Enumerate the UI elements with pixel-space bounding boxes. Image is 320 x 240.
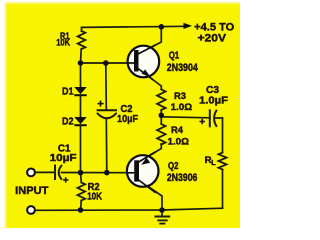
svg-text:10µF: 10µF <box>50 153 77 164</box>
svg-text:Q1: Q1 <box>169 51 180 62</box>
svg-text:10K: 10K <box>87 192 103 203</box>
svg-text:1.0Ω: 1.0Ω <box>171 102 193 113</box>
svg-text:1.0Ω: 1.0Ω <box>168 137 190 148</box>
svg-text:R4: R4 <box>171 125 184 136</box>
svg-text:INPUT: INPUT <box>15 185 48 197</box>
svg-text:D2: D2 <box>62 117 74 128</box>
svg-text:D1: D1 <box>62 86 74 97</box>
svg-text:10K: 10K <box>56 38 70 48</box>
svg-text:10µF: 10µF <box>117 114 138 125</box>
svg-text:R3: R3 <box>174 91 186 102</box>
svg-text:2N3906: 2N3906 <box>167 172 198 184</box>
svg-text:2N3904: 2N3904 <box>167 62 199 74</box>
svg-text:1.0µF: 1.0µF <box>199 95 228 106</box>
svg-text:L: L <box>211 160 216 167</box>
svg-text:Q2: Q2 <box>168 161 179 172</box>
svg-text:+20V: +20V <box>198 33 227 45</box>
